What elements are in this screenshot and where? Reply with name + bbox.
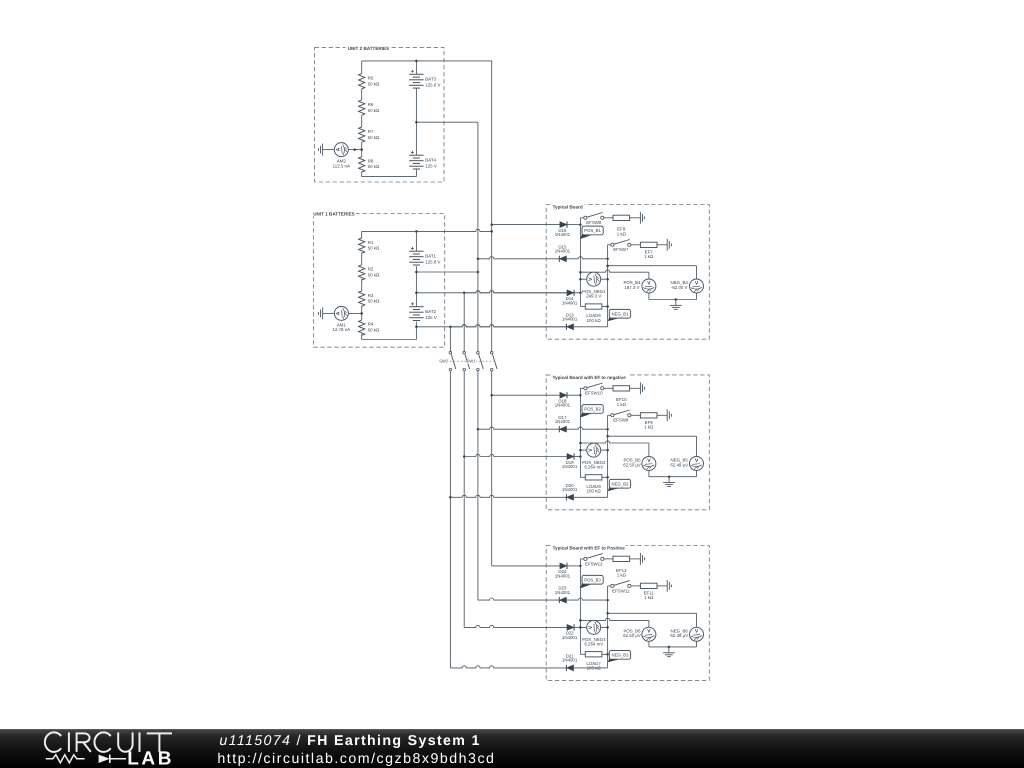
svg-text:R1: R1 (368, 240, 374, 245)
diode D19 (562, 453, 578, 469)
resistor R2 (359, 265, 380, 280)
voltmeter POS_NEG1 (582, 272, 606, 298)
diode D20 (562, 483, 578, 501)
wire AM1 to divider (349, 312, 362, 314)
wire D24 to column1 (567, 565, 580, 567)
wire D22 to column1 (574, 626, 580, 628)
wire column1 to EFSW8 (580, 217, 583, 219)
ground EF11 (667, 580, 671, 592)
wire unit2 resistor column (361, 61, 363, 177)
wire unit1 tap to D14 (416, 291, 567, 293)
junction column2 neg tap (606, 612, 609, 615)
resistor EF8 (613, 215, 630, 236)
junction R3-R4 node (360, 312, 363, 315)
svg-text:SW1: SW1 (466, 359, 476, 364)
wire POS_NEG2 to column2 (601, 449, 608, 451)
wire column1 to LOAD7 (580, 653, 585, 655)
svg-text:100 kΩ: 100 kΩ (587, 489, 602, 494)
svg-text:NEG_B2: NEG_B2 (612, 481, 630, 486)
wire column2 to EFSW7 (608, 244, 611, 246)
diode D22 (562, 624, 578, 640)
junction bus C tap (477, 428, 480, 431)
switch EFSW9 (611, 410, 631, 423)
svg-text:u1115074 / FH Earthing System: u1115074 / FH Earthing System 1 (219, 733, 480, 749)
junction column2 load (606, 305, 609, 308)
svg-text:12.78 nA: 12.78 nA (333, 327, 351, 332)
wire EFSW9 to EF9 (631, 414, 641, 416)
bottom bar (0, 729, 1024, 768)
wire D21 to column2 (574, 667, 608, 669)
svg-text:1 kΩ: 1 kΩ (617, 231, 627, 236)
junction BAT1-BAT2 tap (415, 271, 418, 274)
wire AM2 to divider (348, 149, 361, 151)
svg-text:125 V: 125 V (425, 163, 437, 168)
resistor LOAD6 (585, 475, 602, 494)
svg-text:62.50 µV: 62.50 µV (623, 462, 641, 467)
wire ground to AM1 (323, 312, 335, 314)
junction column1 pos tap (579, 271, 582, 274)
svg-text:BAT2: BAT2 (425, 309, 436, 314)
ammeter AM1 (333, 306, 351, 332)
wire column2 to EFSW11 (608, 585, 611, 587)
svg-text:1N4001: 1N4001 (562, 464, 578, 469)
svg-text:1 kΩ: 1 kΩ (644, 254, 654, 259)
wire bus D to D18 (492, 394, 560, 396)
svg-text:BAT3: BAT3 (425, 77, 436, 82)
wire bus B lower (463, 371, 465, 628)
wire bottom of unit1 (362, 339, 417, 341)
svg-text:50 kΩ: 50 kΩ (368, 108, 380, 113)
svg-text:1N4001: 1N4001 (562, 487, 578, 492)
svg-text:EFSW7: EFSW7 (613, 247, 629, 252)
ground EF12 (640, 553, 644, 565)
wire EFSW11 to EF11 (631, 585, 641, 587)
junction column1 D22 (579, 626, 582, 629)
wire column2 to NEG_B5 (608, 436, 697, 456)
junction ground node (668, 475, 671, 478)
svg-text:NEG_B3: NEG_B3 (612, 652, 630, 657)
svg-text:1 kΩ: 1 kΩ (617, 402, 627, 407)
wire unit1 resistor column (361, 231, 363, 339)
voltmeter POS_B4 (623, 279, 655, 293)
junction column1 pos tap (579, 442, 582, 445)
svg-text:EFSW8: EFSW8 (586, 220, 602, 225)
wire POS_NEG3 to column2 (601, 626, 608, 628)
wire EF11 to ground (657, 585, 667, 587)
junction column2 D15 (606, 258, 609, 261)
svg-text:1N4001: 1N4001 (555, 232, 571, 237)
svg-text:1N4001: 1N4001 (562, 300, 578, 305)
wire D19 to column1 (574, 456, 580, 458)
junction column1 D24 (579, 565, 582, 568)
wire D17 to column2 (567, 427, 608, 429)
wire unit2 mid tap (416, 121, 478, 123)
svg-text:1 kΩ: 1 kΩ (644, 595, 654, 600)
svg-text:112.5 nA: 112.5 nA (333, 163, 350, 168)
svg-text:1N4001: 1N4001 (562, 317, 578, 322)
svg-text:R3: R3 (368, 293, 374, 298)
junction unit2 mid battery (415, 121, 418, 124)
voltmeter NEG_B6 (670, 627, 703, 641)
wire bottom of unit2 (362, 176, 417, 178)
junction column2 neg tap (606, 435, 609, 438)
wire EF9 to ground (657, 414, 667, 416)
wire EF7 to ground (657, 244, 667, 246)
svg-text:-62.00 V: -62.00 V (671, 285, 688, 290)
svg-text:NEG_B1: NEG_B1 (612, 311, 630, 316)
wire column1 to EFSW12 (580, 558, 583, 560)
junction unit1 top on bus D (490, 230, 493, 233)
url text (217, 751, 495, 767)
wire column2 (607, 586, 609, 668)
net flag NEG_B1 (608, 309, 631, 321)
junction column2 meter (606, 449, 609, 452)
wire column1 to LOAD6 (580, 306, 585, 308)
svg-text:249.3 V: 249.3 V (586, 293, 601, 298)
svg-text:1N4001: 1N4001 (555, 590, 571, 595)
svg-text:1N4001: 1N4001 (555, 403, 571, 408)
resistor EF7 (640, 242, 657, 259)
wire column1 to POS_NEG3 (580, 626, 586, 628)
wire EFSW12 to EF12 (604, 558, 613, 560)
junction column1 meter (579, 278, 582, 281)
svg-text:100 kΩ: 100 kΩ (587, 666, 602, 671)
svg-text:R8: R8 (368, 158, 374, 163)
resistor R3 (359, 291, 380, 306)
junction unit2 top battery (415, 60, 418, 63)
junction column1 pos tap (579, 619, 582, 622)
wire D20 to column2 (574, 496, 608, 498)
svg-text:UNIT 1 BATTERIES: UNIT 1 BATTERIES (313, 212, 355, 217)
ground board (670, 300, 682, 310)
svg-text:50 kΩ: 50 kΩ (368, 299, 380, 304)
svg-text:1N4001: 1N4001 (562, 658, 578, 663)
wire LOAD7 to column2 (602, 653, 608, 655)
wire bus D to D16 (492, 224, 560, 226)
wire top of unit1 (362, 229, 492, 231)
voltmeter POS_NEG2 (582, 443, 606, 469)
svg-text:1N4001: 1N4001 (555, 249, 571, 254)
svg-text:125.6 V: 125.6 V (425, 82, 440, 87)
gang link dashed (446, 360, 496, 362)
wire column1 to POS_NEG2 (580, 449, 586, 451)
net flag POS_B2 (580, 405, 603, 418)
wire BAT2 to bottom (415, 322, 417, 340)
wire BAT4 to bottom (415, 169, 417, 177)
resistor EF11 (640, 583, 657, 600)
svg-text:1 kΩ: 1 kΩ (617, 573, 627, 578)
wire D15 to column2 (567, 257, 608, 259)
junction column2 D23 (606, 599, 609, 602)
svg-text:1N4001: 1N4001 (555, 419, 571, 424)
svg-text:187.3 V: 187.3 V (624, 285, 639, 290)
wire meters to ground (649, 293, 697, 300)
svg-text:R7: R7 (368, 129, 374, 134)
junction bus A start (449, 326, 452, 329)
svg-text:50 kΩ: 50 kΩ (368, 81, 380, 86)
junction column2 load (606, 476, 609, 479)
svg-text:EFSW12: EFSW12 (585, 561, 603, 566)
wire EFSW7 to EF7 (631, 244, 641, 246)
resistor R7 (359, 127, 380, 142)
svg-text:Typical Board: Typical Board (553, 204, 583, 209)
battery BAT4 (409, 151, 437, 169)
svg-text:BAT4: BAT4 (425, 158, 436, 163)
junction column2 meter (606, 278, 609, 281)
resistor R1 (359, 238, 380, 253)
wire POS_NEG1 to column2 (601, 278, 608, 280)
switch SW2b (463, 351, 470, 370)
svg-text:BAT1: BAT1 (425, 254, 436, 259)
switch SW1b (490, 351, 497, 370)
switch SW2a (449, 351, 456, 370)
diode D13 (562, 312, 578, 330)
svg-text:EFSW10: EFSW10 (585, 391, 603, 396)
svg-text:50 kΩ: 50 kΩ (368, 272, 380, 277)
wire meters to ground (649, 471, 697, 477)
switch EFSW8 (584, 213, 604, 226)
resistor R5 (359, 74, 380, 89)
junction bus A tap (449, 496, 452, 499)
switch EFSW12 (584, 554, 604, 567)
svg-text:62.49 µV: 62.49 µV (670, 462, 688, 467)
wire column1 (579, 218, 581, 307)
wire EFSW8 to EF8 (604, 217, 613, 219)
wire column2 to NEG_B4 (608, 266, 697, 279)
wire column1 to LOAD6 (580, 476, 585, 478)
wire column2 to EFSW9 (608, 414, 611, 416)
diode D16 (555, 222, 571, 238)
box Typical Board (546, 202, 709, 339)
box Typical Board with EF to negative (546, 372, 709, 510)
wire D23 to column2 (567, 598, 608, 600)
wire bus D lower (491, 371, 493, 566)
svg-text:50 kΩ: 50 kΩ (368, 246, 380, 251)
junction bus B tap (463, 455, 466, 458)
resistor LOAD6 (585, 304, 602, 323)
switch EFSW10 (584, 383, 604, 396)
junction column2 load (606, 653, 609, 656)
voltmeter NEG_B5 (670, 457, 703, 471)
battery BAT2 (409, 302, 437, 320)
battery BAT3 (409, 61, 440, 88)
wire bus B to D19 (464, 454, 567, 456)
wire column1 to POS_B6 (580, 618, 649, 627)
wire bus B to D14 (464, 291, 567, 293)
svg-text:R2: R2 (368, 267, 374, 272)
box UNIT 2 BATTERIES (315, 45, 444, 182)
svg-text:6.264 mV: 6.264 mV (584, 642, 603, 647)
wire EF10 to ground (630, 387, 641, 389)
wire battery column unit1 (415, 266, 417, 307)
junction unit1 top battery (415, 230, 418, 233)
junction bus B start (463, 292, 466, 295)
wire column1 to POS_NEG1 (580, 278, 586, 280)
wire column2 to NEG_B6 (608, 613, 697, 627)
junction column1 D16 (579, 223, 582, 226)
svg-text:125.6 V: 125.6 V (425, 259, 440, 264)
svg-text:LAB: LAB (127, 749, 174, 768)
wire bus C to D15 (478, 257, 559, 259)
resistor LOAD7 (585, 652, 602, 671)
resistor R8 (359, 157, 380, 172)
battery BAT1 (409, 231, 440, 265)
svg-text:125 V: 125 V (425, 315, 437, 320)
wire column1 to POS_B5 (580, 441, 649, 457)
junction column1 D19 (579, 455, 582, 458)
wire column1 (579, 388, 581, 477)
wire bus D to D24 (492, 565, 560, 567)
voltmeter POS_B5 (623, 457, 656, 471)
svg-text:1N4001: 1N4001 (562, 635, 578, 640)
ground board (663, 477, 675, 487)
logo resistor-diode (46, 755, 126, 763)
diode D14 (562, 290, 578, 306)
voltmeter NEG_B4 (671, 279, 704, 293)
svg-text:EFSW9: EFSW9 (613, 418, 629, 423)
wire bus D upper (491, 61, 493, 352)
wire D14 to column1 (574, 292, 580, 294)
resistor EF10 (613, 386, 630, 407)
box UNIT 1 BATTERIES (313, 211, 445, 347)
svg-text:50 kΩ: 50 kΩ (368, 135, 380, 140)
wire bus C to D17 (478, 427, 559, 429)
wire bus A to D13 (450, 325, 566, 327)
svg-text:A: A (336, 147, 342, 151)
logo CIRCUIT (45, 732, 172, 752)
svg-text:62.49 µV: 62.49 µV (670, 633, 688, 638)
svg-text:1 kΩ: 1 kΩ (644, 425, 654, 430)
diode D21 (562, 654, 578, 672)
svg-text:50 kΩ: 50 kΩ (368, 328, 380, 333)
switch EFSW7 (611, 240, 631, 253)
wire bus A to D20 (450, 495, 566, 497)
svg-text:POS_B1: POS_B1 (584, 228, 601, 233)
svg-text:SW2: SW2 (439, 359, 449, 364)
box Typical Board with EF to Positive (546, 543, 709, 681)
wire D16 to column1 (567, 224, 580, 226)
svg-text:R4: R4 (368, 322, 374, 327)
diode D17 (555, 415, 571, 433)
svg-text:UNIT 2 BATTERIES: UNIT 2 BATTERIES (348, 46, 390, 51)
switch SW1a (477, 351, 484, 370)
logo LAB (127, 749, 174, 768)
diode D23 (555, 586, 571, 604)
wire battery column unit2 (415, 88, 417, 155)
ground EF9 (667, 409, 671, 421)
wire meters to ground (649, 641, 697, 647)
svg-text:R5: R5 (368, 76, 374, 81)
svg-text:http://circuitlab.com/cgzb8x9b: http://circuitlab.com/cgzb8x9bdh3cd (217, 751, 495, 767)
diode D15 (555, 244, 571, 262)
junction column1 meter (579, 626, 582, 629)
svg-text:Typical Board with EF to Posit: Typical Board with EF to Positive (553, 545, 626, 550)
resistor EF9 (640, 413, 657, 430)
wire bus C to D23 (478, 598, 559, 600)
wire EF12 to ground (630, 558, 641, 560)
wire column1 (579, 559, 581, 654)
switch EFSW11 (611, 581, 631, 594)
wire bus C lower (477, 371, 479, 600)
wire bus A upper (449, 327, 451, 352)
ground at AM1 (318, 307, 322, 319)
svg-text:A: A (336, 311, 342, 315)
resistor R6 (359, 100, 380, 115)
svg-text:1N4001: 1N4001 (555, 573, 571, 578)
ground EF7 (667, 239, 671, 251)
wire LOAD6 to column2 (602, 306, 608, 308)
wire column1 to EFSW10 (580, 387, 583, 389)
svg-text:6.264 mV: 6.264 mV (584, 464, 603, 469)
diode D18 (555, 392, 571, 408)
svg-text:Typical Board with EF to negat: Typical Board with EF to negative (553, 375, 627, 380)
label SW2 (439, 359, 449, 364)
wire bus B to D22 (464, 625, 567, 627)
wire ground to AM2 (323, 149, 335, 151)
junction ground node (675, 298, 678, 301)
ammeter AM2 (333, 143, 350, 169)
svg-text:100 kΩ: 100 kΩ (587, 318, 602, 323)
wire column1 to POS_B4 (580, 270, 649, 279)
wire bus C upper (477, 122, 479, 351)
ground at AM2 (318, 144, 322, 156)
svg-text:POS_B3: POS_B3 (584, 577, 601, 582)
ground EF8 (640, 212, 644, 224)
resistor EF12 (613, 556, 630, 577)
junction column2 neg tap (606, 264, 609, 267)
net flag POS_B3 (580, 575, 603, 588)
wire LOAD6 to column2 (602, 476, 608, 478)
svg-text:62.50 µV: 62.50 µV (623, 633, 641, 638)
junction bus D tap (490, 223, 493, 226)
junction bus D tap (490, 394, 493, 397)
junction BAT2 minus tap (415, 326, 418, 329)
voltmeter POS_B6 (623, 627, 656, 641)
wire EF8 to ground (630, 217, 641, 219)
ground EF10 (640, 382, 644, 394)
wire D18 to column1 (567, 394, 580, 396)
svg-text:POS_B2: POS_B2 (584, 407, 601, 412)
wire top of unit2 (362, 60, 492, 62)
junction bus C tap (477, 258, 480, 261)
wire bus A to D21 (450, 666, 566, 668)
junction ground node (668, 646, 671, 649)
wire unit1 tap to bus C (416, 271, 478, 273)
diode D24 (555, 563, 571, 579)
wire unit1 bottom tap to D13 (416, 325, 566, 327)
junction R7-R8 node (360, 148, 363, 151)
net flag NEG_B2 (608, 479, 631, 491)
junction BAT2 plus tap (415, 292, 418, 295)
ground board (663, 647, 675, 657)
svg-text:R6: R6 (368, 102, 374, 107)
wire D13 to column2 (574, 326, 608, 328)
net flag NEG_B3 (608, 651, 631, 663)
title text (219, 733, 480, 749)
voltmeter POS_NEG3 (582, 620, 606, 646)
junction column1 meter (579, 449, 582, 452)
junction column2 D17 (606, 428, 609, 431)
junction column2 meter (606, 626, 609, 629)
junction column1 D14 (579, 292, 582, 295)
resistor R4 (359, 320, 380, 335)
wire column2 (607, 415, 609, 497)
junction tap on bus C (477, 271, 480, 274)
svg-text:EFSW11: EFSW11 (612, 588, 630, 593)
label SW1 (466, 359, 476, 364)
wire bus A lower (449, 371, 451, 668)
wire bus B upper (463, 293, 465, 352)
